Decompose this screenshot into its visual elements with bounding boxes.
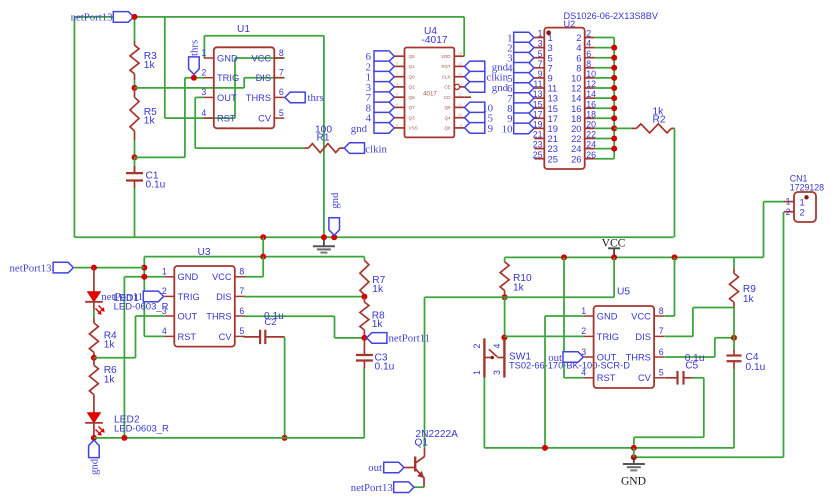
junction gnd line / U1 GND drop	[321, 234, 327, 240]
U4 port 7	[374, 92, 394, 103]
svg-text:8: 8	[279, 48, 284, 58]
connector U2 body	[544, 28, 584, 169]
U2 pin 10 stub	[585, 77, 595, 79]
svg-text:Q0: Q0	[409, 75, 416, 80]
U3 pin 5 CV stub	[235, 335, 245, 337]
svg-text:4: 4	[201, 108, 206, 118]
wire U2 pin 8 to bus	[595, 67, 615, 69]
U2 port 3	[514, 52, 534, 63]
svg-text:2: 2	[586, 29, 591, 39]
U4 port 4	[374, 112, 394, 123]
U1 pin 1 GND stub	[204, 57, 214, 59]
resistor R5	[134, 88, 136, 97]
svg-text:RST: RST	[441, 64, 450, 69]
svg-text:12: 12	[458, 93, 462, 97]
svg-text:gnd: gnd	[89, 458, 101, 475]
U4 pin 9 Q8 stub	[454, 127, 464, 129]
svg-text:10: 10	[458, 113, 462, 117]
svg-text:TRIG: TRIG	[178, 292, 200, 302]
svg-text:2: 2	[786, 207, 791, 217]
svg-text:3: 3	[492, 370, 502, 375]
svg-text:R1: R1	[317, 133, 330, 144]
wire U4 VDD to netPort13 line	[463, 17, 465, 56]
svg-text:8: 8	[659, 306, 664, 316]
U4 port 5 at Q4	[465, 112, 485, 123]
U4 pin 6 Q7 stub	[395, 106, 405, 108]
U4 port 10 at Q9	[465, 102, 485, 113]
svg-text:7: 7	[279, 68, 284, 78]
svg-text:16: 16	[458, 52, 462, 56]
U4 port clkin at CLK	[465, 71, 485, 82]
U1 pin 7 DIS stub	[274, 77, 284, 79]
svg-text:11: 11	[458, 103, 462, 107]
svg-text:11: 11	[533, 79, 542, 89]
junction C2 line / bottom line	[282, 435, 288, 441]
junction SW1 pin4 / TRIG	[501, 335, 507, 341]
resistor R8	[363, 297, 365, 302]
U4 pin 12 CD stub	[454, 96, 464, 98]
port out at U5 OUT	[563, 352, 583, 363]
wire bus to R2	[614, 127, 632, 129]
svg-text:0.1u: 0.1u	[375, 362, 395, 373]
U2 port 9	[514, 113, 534, 124]
U2 pin 11 stub	[534, 87, 544, 89]
junction R3/R5/DIS node	[132, 85, 138, 91]
wire U2 pin 6 to bus	[595, 57, 615, 59]
svg-text:OUT: OUT	[217, 93, 237, 103]
U4 pin 13 CE stub with inversion circle	[454, 84, 459, 89]
U4 pin 2 Q1 stub	[395, 65, 405, 67]
svg-text:9: 9	[538, 69, 543, 79]
svg-text:U5: U5	[617, 287, 630, 298]
U2 port 8	[514, 103, 534, 114]
svg-text:1k: 1k	[144, 116, 156, 127]
svg-text:1: 1	[396, 52, 398, 56]
svg-text:VSS: VSS	[409, 126, 418, 131]
svg-text:1k: 1k	[513, 282, 525, 293]
U2 pin 6 stub	[585, 57, 595, 59]
junction U3 left vertical / GND row	[141, 274, 147, 280]
svg-text:2: 2	[396, 62, 398, 66]
wire net netPort13 to U1 RST horizontal	[165, 117, 205, 119]
junction R8/C3/netPort11 node	[361, 335, 367, 341]
svg-text:4017: 4017	[423, 90, 437, 97]
wire U3 VCC branch riser	[262, 237, 264, 256]
U4 pin 1 Q5 stub	[395, 55, 405, 57]
wire C5 right down to gnd rail	[692, 377, 704, 379]
svg-text:6: 6	[396, 103, 398, 107]
U2 pin 15 stub	[534, 107, 544, 109]
wire thrs net vertical riser	[184, 78, 186, 158]
junction U2 bus row 6	[611, 85, 617, 91]
power symbol VCC	[613, 248, 615, 257]
wire U1 GND top horizontal	[204, 35, 324, 37]
U4 port 1	[374, 71, 394, 82]
U5 pin 5 CV stub	[654, 377, 664, 379]
CN1 pin1 marker dot	[804, 195, 808, 199]
U3 pin 6 THRS stub	[235, 315, 245, 317]
svg-text:1: 1	[538, 29, 543, 39]
wire U3 left vertical (RST/GND)	[143, 257, 145, 337]
wire U2 pin 2 to bus	[595, 37, 615, 39]
wire VCC rail riser at x=614	[613, 257, 615, 297]
wire U3 GND drop x=124	[123, 277, 125, 438]
U2 pin 18 stub	[585, 117, 595, 119]
U2 pin 26 stub	[585, 158, 595, 160]
svg-text:VCC: VCC	[251, 53, 271, 63]
svg-text:6: 6	[239, 306, 244, 316]
svg-text:clkin: clkin	[365, 143, 387, 155]
svg-text:netPort13: netPort13	[10, 262, 52, 274]
junction U5 GND / gnd rail	[542, 445, 548, 451]
svg-text:8: 8	[396, 123, 398, 127]
wire LED1 to R4	[93, 302, 95, 310]
U2 port 1	[514, 32, 534, 43]
U1 pin 2 TRIG stub	[204, 77, 214, 79]
svg-text:3: 3	[396, 72, 398, 76]
junction LED2 / gnd port	[91, 435, 97, 441]
port netPort13 (top)	[113, 12, 133, 23]
svg-text:4: 4	[396, 82, 398, 86]
capacitor C1	[134, 157, 136, 173]
resistor R2	[632, 127, 637, 129]
svg-text:-4017: -4017	[422, 35, 448, 46]
U5 pin 1 GND stub	[584, 315, 594, 317]
U2 pin1 marker dot	[546, 30, 551, 35]
wire U3 GND pin1 horizontal	[124, 276, 164, 278]
wire U2 right bus vertical	[613, 38, 615, 159]
svg-text:Q5: Q5	[409, 54, 416, 59]
svg-text:DIS: DIS	[635, 332, 651, 342]
U1 pin 6 THRS stub	[274, 96, 284, 98]
capacitor C2	[244, 336, 261, 338]
junction R10 bottom / long line	[502, 294, 508, 300]
U3 pin 4 RST stub	[164, 335, 174, 337]
svg-text:netPort13: netPort13	[71, 12, 113, 24]
junction TRIG/thrs node	[191, 75, 197, 81]
svg-text:4: 4	[492, 344, 502, 349]
resistor R3	[134, 41, 136, 45]
U4 pin 10 Q4 stub	[454, 117, 464, 119]
wire U3 THRS to netPort11 node	[244, 315, 335, 317]
svg-text:0.1u: 0.1u	[146, 179, 166, 190]
U2 pin 23 stub	[534, 148, 544, 150]
U1 pin 8 VCC stub	[274, 57, 284, 59]
svg-text:CE: CE	[444, 85, 450, 90]
port out at Q1 base	[384, 462, 404, 473]
capacitor C4	[733, 338, 735, 350]
svg-text:netPort11: netPort11	[389, 333, 431, 345]
U1 pin 4 RST stub	[204, 117, 214, 119]
svg-text:23: 23	[533, 140, 543, 150]
resistor R7	[363, 257, 365, 261]
wire C2 down to bottom line	[284, 337, 286, 438]
wire U2 pin 12 to bus	[595, 87, 615, 89]
svg-text:14: 14	[458, 72, 462, 76]
wire U2 pin 22 to bus	[595, 138, 615, 140]
wire U2 pin 24 to bus	[595, 148, 615, 150]
svg-text:14: 14	[586, 89, 596, 99]
wire CN1 pin2 down to GND	[783, 212, 785, 458]
U2 pin 12 stub	[585, 87, 595, 89]
junction VCC rail / U5 VCC riser	[672, 254, 678, 260]
svg-text:1: 1	[581, 306, 586, 316]
svg-text:0.1u: 0.1u	[746, 362, 766, 373]
svg-text:GND: GND	[597, 311, 618, 321]
U3 pin 8 VCC stub	[235, 276, 245, 278]
wire net netPort13 left vertical drop	[73, 17, 75, 237]
svg-text:1: 1	[162, 267, 167, 277]
svg-text:1729128: 1729128	[790, 182, 824, 192]
svg-text:25: 25	[548, 153, 558, 164]
U2 pin 3 stub	[534, 47, 544, 49]
U4 port gnd	[374, 123, 394, 134]
svg-text:24: 24	[586, 140, 596, 150]
svg-text:RST: RST	[178, 332, 197, 342]
U4 CD bare stub extension	[464, 96, 471, 98]
junction U2 bus row 7	[611, 95, 617, 101]
wire U2 pin 16 to bus	[595, 107, 615, 109]
svg-text:Q8: Q8	[444, 126, 451, 131]
wire U2 pin 26 to bus	[595, 158, 615, 160]
svg-text:U2: U2	[564, 19, 576, 29]
wire U1 OUT down-right to R1	[195, 96, 204, 98]
U4 pin 7 Q3 stub	[395, 117, 405, 119]
junction U2 bus row 2	[611, 45, 617, 51]
resistor R9	[733, 257, 735, 268]
U5 pin 2 TRIG stub	[584, 335, 594, 337]
svg-text:DIS: DIS	[216, 292, 232, 302]
svg-text:26: 26	[571, 153, 581, 164]
svg-text:OUT: OUT	[597, 352, 617, 362]
switch SW1	[483, 338, 485, 377]
wire U1 GND pin1 to gnd net: riser	[203, 36, 205, 58]
junction U2 bus row 5	[611, 75, 617, 81]
wire SW1 pin1 down to gnd rail	[483, 378, 485, 448]
U5 pin 4 RST stub	[584, 377, 594, 379]
capacitor C5	[664, 377, 677, 379]
svg-text:RST: RST	[597, 373, 616, 383]
connector CN1 body	[794, 192, 816, 222]
wire DIS net riser	[243, 78, 245, 88]
junction U2 bus row 10	[611, 125, 617, 131]
counter U4 body	[405, 48, 455, 138]
wire U2 pin 10 to bus	[595, 77, 615, 79]
svg-text:1k: 1k	[144, 60, 156, 71]
svg-text:gnd: gnd	[351, 123, 368, 135]
U2 port 7	[514, 93, 534, 104]
CN1 pin 1 stub	[784, 201, 794, 203]
wire U5 THRS right	[664, 356, 715, 358]
wire long line y=297 from Q1 collector to VCC rail riser	[425, 296, 615, 298]
svg-text:Q1: Q1	[415, 438, 429, 449]
svg-text:DS1026-06-2X13S8BV: DS1026-06-2X13S8BV	[564, 11, 659, 21]
svg-text:gnd: gnd	[492, 82, 509, 94]
junction U2 bus row 8	[611, 105, 617, 111]
junction DIS/THRS/C4 node	[731, 335, 737, 341]
LED LED2	[93, 400, 95, 413]
port gnd (vertical, above gnd line)	[329, 218, 340, 236]
junction bottom line / U3 GND drop	[121, 435, 127, 441]
port thrs (vertical, above U1 TRIG)	[189, 57, 200, 75]
junction gnd line / gnd port	[331, 234, 337, 240]
U1 pin 3 OUT stub	[204, 96, 214, 98]
wire VCC rail horizontal	[505, 256, 734, 258]
svg-text:TRIG: TRIG	[217, 73, 239, 83]
U4 pin 8 VSS stub	[395, 127, 405, 129]
U2 pin 9 stub	[534, 77, 544, 79]
U2 port 4	[514, 63, 534, 74]
U5 pin 6 THRS stub	[654, 356, 664, 358]
wire DIS net to U1 pin7	[244, 77, 284, 79]
svg-text:LED-0603_R: LED-0603_R	[114, 302, 169, 313]
wire U2 pin 14 to bus	[595, 97, 615, 99]
resistor R6	[93, 358, 95, 365]
wire C4 bottom to gnd rail	[733, 369, 735, 448]
U4 port gnd at RST	[465, 61, 485, 72]
U4 pin 14 CLK stub	[454, 76, 464, 78]
svg-text:C2: C2	[265, 317, 277, 327]
svg-text:1k: 1k	[372, 284, 384, 295]
U2 pin 4 stub	[585, 47, 595, 49]
resistor R10	[504, 257, 506, 261]
svg-text:RST: RST	[217, 114, 236, 124]
wire R9 bottom to C4 node	[733, 308, 735, 338]
U3 pin 1 GND stub	[164, 276, 174, 278]
svg-text:5: 5	[538, 49, 543, 59]
junction gnd line / U3 branch	[260, 234, 266, 240]
junction VCC stem	[611, 254, 617, 260]
svg-text:C5: C5	[685, 361, 698, 372]
wire bottom line of U3 section	[94, 437, 364, 439]
U4 pin 11 Q9 stub	[454, 106, 464, 108]
ground symbol on gnd line (gray)	[323, 237, 325, 246]
U2 pin 21 stub	[534, 138, 544, 140]
junction netPort13/R3 node	[132, 14, 138, 20]
svg-text:LED-0603_R: LED-0603_R	[114, 424, 169, 435]
U4 port 9 at Q8	[465, 123, 485, 134]
U4 port gnd at CE	[465, 82, 485, 93]
U1 pin 5 CV stub	[274, 117, 284, 119]
svg-text:9: 9	[460, 123, 462, 127]
svg-text:1k: 1k	[104, 340, 116, 351]
junction U2 bus row 3	[611, 55, 617, 61]
svg-text:Q3: Q3	[409, 116, 416, 121]
wire C3 bottom to bottom line	[363, 368, 365, 438]
svg-text:Q1: Q1	[409, 64, 416, 69]
junction U2 bus row 9	[611, 115, 617, 121]
svg-text:21: 21	[533, 130, 543, 140]
wire R3 top connection	[134, 17, 136, 41]
svg-text:thrs: thrs	[308, 92, 324, 104]
wire U3 VCC top line	[144, 256, 364, 258]
wire Q1 collector from long line	[424, 297, 426, 448]
svg-text:1: 1	[786, 197, 791, 207]
svg-text:2: 2	[472, 344, 482, 349]
svg-text:5: 5	[279, 108, 284, 118]
svg-text:THRS: THRS	[626, 352, 651, 362]
wire between gnd junctions	[633, 448, 635, 457]
svg-text:8: 8	[586, 59, 591, 69]
U2 pin 22 stub	[585, 138, 595, 140]
svg-text:netPort11: netPort11	[101, 291, 143, 303]
svg-text:1: 1	[201, 48, 206, 58]
wire thrs net horizontal at node	[135, 156, 185, 158]
transistor Q1 2N2222A	[424, 448, 426, 456]
svg-text:5: 5	[659, 368, 664, 378]
junction U3 VCC line branch	[260, 254, 266, 260]
U4 pin 4 Q2 stub	[395, 86, 405, 88]
svg-text:GND: GND	[217, 53, 238, 63]
svg-text:CV: CV	[258, 114, 272, 124]
wire DIS net horizontal from R3/R5 node	[135, 87, 245, 89]
junction U2 bus row 12	[611, 146, 617, 152]
port netPort13 (bottom-left)	[53, 262, 73, 273]
port thrs at U1 THRS pin6	[285, 92, 305, 103]
wire U5 GND down	[544, 316, 546, 448]
timer U5	[594, 306, 655, 388]
svg-text:Q2: Q2	[409, 85, 416, 90]
svg-text:15: 15	[458, 62, 462, 66]
U2 port 6	[514, 83, 534, 94]
svg-text:Q7: Q7	[409, 105, 416, 110]
junction gnd rail / GND symbol	[631, 445, 637, 451]
svg-text:CV: CV	[638, 373, 652, 383]
wire U3 DIS to R7/R8 node	[244, 296, 365, 298]
svg-text:GND: GND	[178, 272, 199, 282]
U2 pin 7 stub	[534, 67, 544, 69]
junction gnd rail / CN1 branch	[631, 454, 637, 460]
svg-text:7: 7	[239, 286, 244, 296]
svg-text:VCC: VCC	[631, 311, 651, 321]
U5 pin 7 DIS stub	[654, 335, 664, 337]
svg-text:VCC: VCC	[602, 236, 626, 249]
svg-text:netPort13: netPort13	[351, 482, 393, 494]
svg-text:2: 2	[581, 326, 586, 336]
port netPort11 at U3 TRIG	[143, 291, 163, 302]
wire net netPort13 top horizontal	[74, 16, 464, 18]
junction R5/C1/thrs node	[132, 154, 138, 160]
svg-text:10: 10	[502, 123, 513, 135]
U2 port 2	[514, 42, 534, 53]
U4 pin 15 RST stub	[454, 65, 464, 67]
wire R10 bottom to SW1 pin4	[504, 297, 506, 337]
U5 pin 3 OUT stub	[584, 356, 594, 358]
U4 pin 3 Q0 stub	[395, 76, 405, 78]
svg-text:26: 26	[586, 150, 596, 160]
junction U3 left vertical / netPort13	[141, 265, 147, 271]
svg-text:5: 5	[396, 93, 398, 97]
wire netPort13 pass-through over U1 to VCC pin8	[204, 117, 235, 119]
svg-text:2: 2	[201, 68, 206, 78]
svg-text:THRS: THRS	[206, 311, 231, 321]
svg-text:Q6: Q6	[409, 95, 416, 100]
svg-text:OUT: OUT	[178, 311, 198, 321]
U4 pin 5 Q6 stub	[395, 96, 405, 98]
junction VCC rail / U5 RST drop	[561, 254, 567, 260]
svg-text:22: 22	[586, 130, 596, 140]
svg-text:4: 4	[586, 39, 591, 49]
svg-text:12: 12	[586, 79, 596, 89]
timer U3	[174, 266, 235, 347]
U2 pin 1 stub	[534, 37, 544, 39]
wire VCC rail to CN1 pin1	[734, 256, 764, 258]
svg-text:U1: U1	[237, 24, 250, 35]
svg-text:7: 7	[396, 113, 398, 117]
svg-text:4: 4	[581, 368, 586, 378]
svg-text:25: 25	[533, 150, 543, 160]
wire U2 pin 20 to bus	[595, 127, 615, 129]
